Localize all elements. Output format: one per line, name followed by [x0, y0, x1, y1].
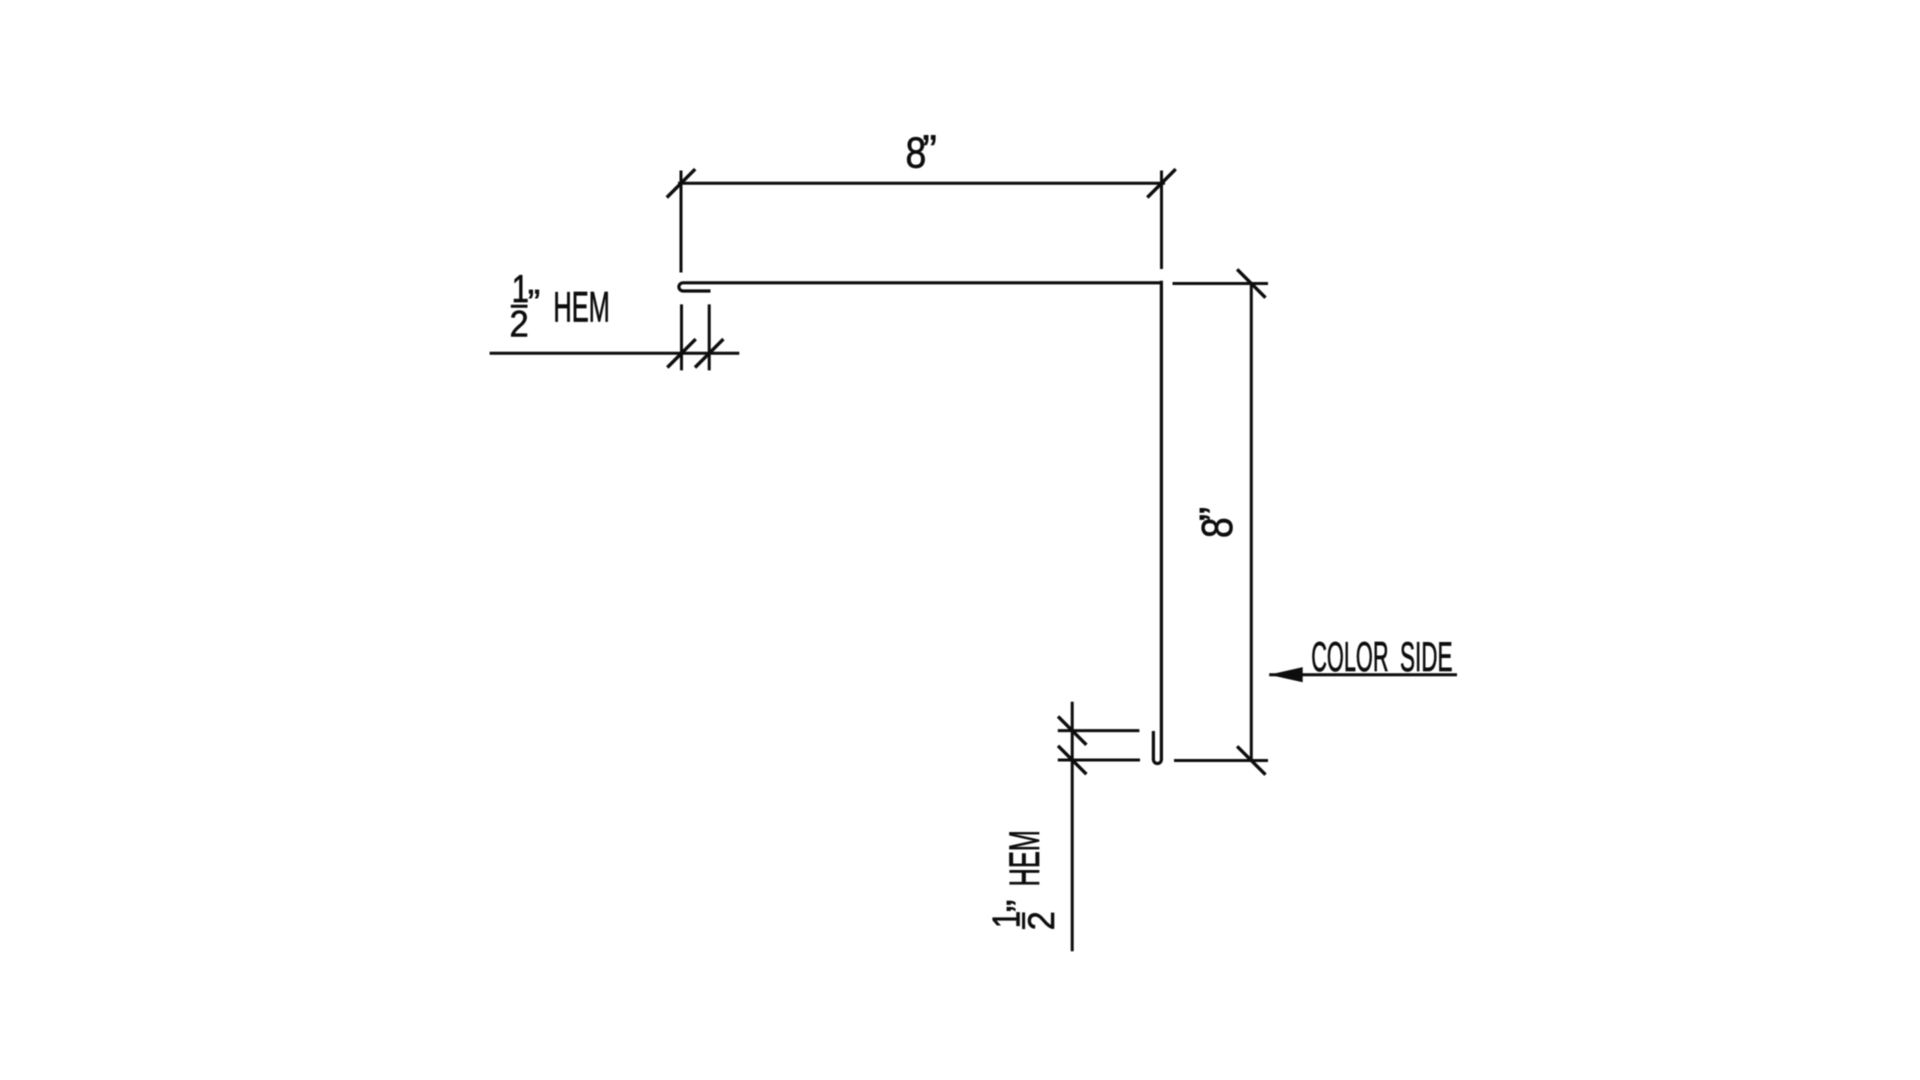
svg-text:”: ” — [922, 127, 937, 176]
svg-text:SIDE: SIDE — [1400, 635, 1453, 681]
svg-text:”: ” — [528, 283, 541, 325]
svg-text:2: 2 — [510, 304, 529, 345]
svg-text:COLOR: COLOR — [1311, 635, 1388, 681]
svg-text:HEM: HEM — [553, 284, 609, 331]
